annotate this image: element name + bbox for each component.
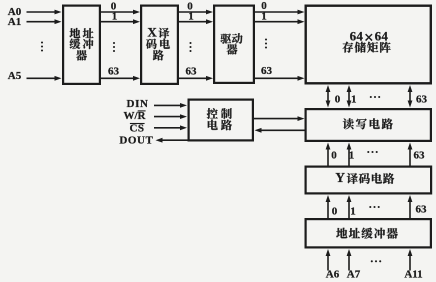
label 63 bit line bbox=[416, 94, 428, 106]
wire decode line 0 U2-U3 bbox=[179, 10, 213, 15]
svg-text:Y: Y bbox=[335, 170, 345, 185]
label A7 bbox=[347, 269, 361, 281]
wire column line 0 U7-U6 bbox=[326, 143, 331, 167]
svg-text:W/R: W/R bbox=[124, 110, 147, 122]
label 63 column line bbox=[414, 149, 426, 161]
label A0 bbox=[8, 6, 22, 18]
svg-text:1: 1 bbox=[261, 11, 267, 23]
wire row line 0 U1-U2 bbox=[101, 10, 140, 15]
wire DIN input arrow bbox=[154, 103, 187, 108]
wire A11 input arrow bbox=[408, 249, 413, 271]
svg-text:64: 64 bbox=[375, 28, 389, 43]
wire decode line 63 U2-U3 bbox=[179, 76, 213, 81]
svg-text:A1: A1 bbox=[8, 16, 21, 28]
node address input ellipsis bbox=[41, 41, 43, 51]
svg-text:A7: A7 bbox=[347, 269, 361, 281]
label A6 bbox=[326, 269, 340, 281]
svg-text:1: 1 bbox=[349, 149, 355, 161]
label 1 column line bbox=[349, 149, 355, 161]
wire DOUT output arrow bbox=[156, 138, 188, 143]
wire word line 0 U3-U4 bbox=[255, 10, 305, 15]
svg-text:X: X bbox=[147, 25, 157, 40]
node decode lines ellipsis bbox=[189, 42, 191, 52]
node row lines ellipsis 1 bbox=[113, 42, 115, 52]
svg-text:A11: A11 bbox=[404, 269, 422, 281]
wire A1 input arrow bbox=[27, 19, 62, 24]
wire bit line 0 U4-U6 bbox=[326, 85, 331, 108]
label 63 row line bbox=[108, 66, 120, 78]
wire select line 63 U8-U7 bbox=[408, 195, 413, 218]
label A1 bbox=[8, 16, 21, 28]
label 63 word line bbox=[261, 65, 273, 77]
wire column line 1 U7-U6 bbox=[347, 143, 352, 167]
node column address ellipsis bbox=[371, 260, 382, 262]
block U3 driver 驱动器 bbox=[214, 6, 254, 83]
label 63 select line bbox=[416, 203, 428, 215]
svg-text:0: 0 bbox=[332, 205, 338, 217]
svg-text:63: 63 bbox=[414, 149, 426, 161]
node bit lines ellipsis bbox=[370, 96, 381, 98]
svg-text:63: 63 bbox=[186, 66, 198, 78]
svg-text:1: 1 bbox=[350, 205, 356, 217]
svg-text:63: 63 bbox=[416, 94, 428, 106]
node word lines ellipsis bbox=[265, 38, 267, 48]
block U2 X decoder X译码电路 bbox=[141, 6, 178, 84]
node column lines ellipsis bbox=[367, 151, 378, 153]
svg-text:0: 0 bbox=[335, 94, 341, 106]
svg-text:DIN: DIN bbox=[127, 98, 149, 110]
wire A5 input arrow bbox=[27, 76, 62, 81]
wire bit line 63 U4-U6 bbox=[408, 85, 413, 108]
label DOUT bbox=[119, 135, 153, 147]
label DIN bbox=[127, 98, 149, 110]
svg-text:A5: A5 bbox=[8, 70, 22, 82]
svg-text:DOUT: DOUT bbox=[119, 135, 153, 147]
block U4 storage matrix 64×64存储矩阵 bbox=[306, 6, 431, 84]
label 1 bit line bbox=[351, 94, 357, 106]
wire A6 input arrow bbox=[326, 249, 331, 271]
wire read-write to control bbox=[255, 128, 305, 133]
wire select line 1 U8-U7 bbox=[347, 195, 352, 218]
wire column line 63 U7-U6 bbox=[408, 143, 413, 167]
wire decode line 1 U2-U3 bbox=[179, 19, 213, 24]
wire word line 63 U3-U4 bbox=[255, 76, 305, 81]
block U7 Y decoder Y译码电路 bbox=[306, 167, 432, 194]
label 63 decode line bbox=[186, 66, 198, 78]
wire control to read-write bbox=[254, 116, 305, 121]
svg-text:63: 63 bbox=[108, 66, 120, 78]
label 0 decode line bbox=[187, 1, 193, 13]
svg-text:63: 63 bbox=[261, 65, 273, 77]
svg-text:A6: A6 bbox=[326, 269, 340, 281]
svg-text:0: 0 bbox=[331, 149, 337, 161]
label 0 row line bbox=[111, 1, 117, 13]
label 1 select line bbox=[350, 205, 356, 217]
wire A0 input arrow bbox=[27, 10, 62, 15]
wire W/R input arrow bbox=[154, 114, 187, 119]
label 0 column line bbox=[331, 149, 337, 161]
label CS-bar bbox=[129, 123, 144, 135]
wire word line 1 U3-U4 bbox=[255, 19, 305, 24]
label A5 bbox=[8, 70, 22, 82]
label 1 row line bbox=[112, 11, 118, 23]
wire CS input arrow bbox=[154, 125, 187, 130]
block U5 control circuit 控制电路 bbox=[189, 100, 253, 141]
svg-text:63: 63 bbox=[416, 203, 428, 215]
label 1 decode line bbox=[188, 11, 194, 23]
wire bit line 1 U4-U6 bbox=[347, 85, 352, 108]
label 0 bit line bbox=[335, 94, 341, 106]
label A11 bbox=[404, 269, 422, 281]
block U8 column address buffer 地址缓冲器 bbox=[306, 219, 431, 247]
svg-text:64: 64 bbox=[350, 28, 364, 43]
wire row line 63 U1-U2 bbox=[101, 76, 140, 81]
node select lines ellipsis bbox=[369, 206, 380, 208]
wire row line 1 U1-U2 bbox=[101, 19, 140, 24]
label 1 word line bbox=[261, 11, 267, 23]
wire A7 input arrow bbox=[347, 249, 352, 271]
wire select line 0 U8-U7 bbox=[326, 195, 331, 218]
label 0 word line bbox=[261, 0, 267, 12]
label 0 select line bbox=[332, 205, 338, 217]
block U6 read-write circuit 读写电路 bbox=[306, 109, 431, 141]
block U1 row address buffer 地址缓冲器 bbox=[63, 6, 100, 84]
svg-text:CS: CS bbox=[129, 123, 144, 135]
label W/R-bar bbox=[124, 110, 147, 122]
svg-text:1: 1 bbox=[351, 94, 357, 106]
